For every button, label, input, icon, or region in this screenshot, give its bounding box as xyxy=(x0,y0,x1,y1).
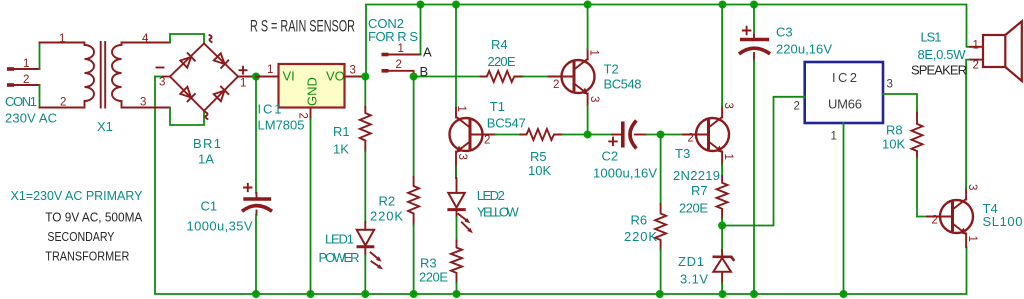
svg-text:3: 3 xyxy=(159,77,165,89)
wire: LED1 to ground rail xyxy=(364,255,366,294)
wire: VO node down to R1 xyxy=(364,77,366,108)
wire: T3 base from node xyxy=(661,134,683,136)
T1 labels xyxy=(487,99,526,131)
svg-text:3: 3 xyxy=(350,65,356,77)
svg-text:LED1: LED1 xyxy=(325,232,354,247)
svg-text:R2: R2 xyxy=(379,194,396,209)
node: junction ground rail at R2 xyxy=(410,290,418,298)
T3 labels xyxy=(673,146,720,183)
wire: node down to ZD1 xyxy=(721,226,723,251)
svg-text:1: 1 xyxy=(267,64,273,76)
node: junction ground rail at R3 xyxy=(453,290,461,298)
svg-text:2N2219: 2N2219 xyxy=(673,168,720,183)
wire: node down to R6 xyxy=(660,135,662,205)
svg-text:T2: T2 xyxy=(604,62,619,77)
wire: R2 to ground rail xyxy=(413,225,415,294)
IC2 pin 2 wire to ZD1 node xyxy=(722,97,805,226)
svg-text:8E,0.5W: 8E,0.5W xyxy=(918,47,967,62)
node: junction ground rail at IC1 GND xyxy=(307,290,315,298)
svg-text:R8: R8 xyxy=(886,123,903,138)
T2 labels xyxy=(604,62,642,92)
wire: CON1 pin2 to transformer primary pin 2 xyxy=(39,85,41,108)
node: junction top rail at T2 collector xyxy=(584,1,592,9)
connector CON1 pin 2 xyxy=(7,74,40,86)
svg-text:4: 4 xyxy=(142,33,149,45)
svg-text:220K: 220K xyxy=(370,209,403,224)
svg-text:1A: 1A xyxy=(198,152,214,167)
wire: T3 collector to top rail xyxy=(721,5,723,107)
wire: C2 to T3 base node xyxy=(646,134,661,136)
transistor T4 SL100 xyxy=(927,184,978,247)
LED1 labels xyxy=(319,232,360,266)
speaker LS1 xyxy=(970,21,1021,81)
bridge AC tilde bottom xyxy=(205,112,207,119)
svg-text:R S = RAIN SENSOR: R S = RAIN SENSOR xyxy=(250,17,355,36)
wire: R6 to ground rail xyxy=(660,250,662,295)
transistor T3 2N2219 xyxy=(683,103,734,166)
node: junction ground rail at LED1 xyxy=(361,290,369,298)
wire: R1 to LED1 xyxy=(364,151,366,222)
svg-text:IC1: IC1 xyxy=(258,102,282,117)
svg-text:2: 2 xyxy=(484,135,490,147)
resistor R4 220E xyxy=(481,37,523,82)
LED2 labels xyxy=(477,188,520,220)
svg-text:BC547: BC547 xyxy=(487,116,526,131)
speaker LS1 labels xyxy=(911,30,967,78)
capacitor C3 (polarized) xyxy=(739,27,770,60)
svg-text:230V AC: 230V AC xyxy=(5,111,57,126)
svg-text:T3: T3 xyxy=(675,146,690,161)
svg-text:2: 2 xyxy=(553,79,559,91)
svg-text:2: 2 xyxy=(932,215,938,227)
svg-text:LM7805: LM7805 xyxy=(258,118,305,133)
wire: T1 emitter green segment xyxy=(455,167,457,178)
svg-text:3: 3 xyxy=(966,184,978,190)
wire: T2 emitter down to C2 row xyxy=(587,106,589,135)
svg-text:C1: C1 xyxy=(201,199,218,214)
wire: B node to R4 xyxy=(414,76,481,78)
wire: C3 down to ground rail xyxy=(753,60,755,294)
capacitor C2 labels xyxy=(593,149,657,181)
LED LED2 yellow xyxy=(447,178,474,235)
svg-text:FOR R S: FOR R S xyxy=(368,29,418,44)
svg-text:1: 1 xyxy=(973,40,979,52)
svg-text:TO 9V AC, 500MA: TO 9V AC, 500MA xyxy=(45,210,142,225)
transistor T2 BC548 xyxy=(549,49,601,106)
wire: node down to R2 xyxy=(413,77,415,178)
node: junction top rail at C3 xyxy=(750,1,758,9)
wire: top rail to C3 xyxy=(753,5,755,35)
svg-text:POWER: POWER xyxy=(319,250,360,265)
svg-text:GND: GND xyxy=(305,77,320,106)
svg-text:3: 3 xyxy=(722,103,734,109)
node: junction ground rail at ZD1 xyxy=(719,290,727,298)
wire: R5 to T2 emitter node xyxy=(562,134,588,136)
capacitor C2 (polarized) xyxy=(609,121,646,149)
wire: IC1 GND to ground rail xyxy=(310,119,312,294)
resistor R7 220E xyxy=(679,176,728,219)
svg-text:220K: 220K xyxy=(624,229,657,244)
svg-text:R6: R6 xyxy=(631,213,648,228)
svg-text:220E: 220E xyxy=(419,270,448,285)
node: junction ground rail at R6 xyxy=(656,290,664,298)
resistor R6 220K xyxy=(624,204,666,250)
svg-text:1: 1 xyxy=(722,154,734,160)
wire: R4 to T2 base xyxy=(523,76,549,78)
svg-text:1: 1 xyxy=(455,106,467,112)
svg-text:220E: 220E xyxy=(488,54,516,69)
node: junction T2 emitter / R5 / C2 xyxy=(584,131,592,139)
svg-text:SECONDARY: SECONDARY xyxy=(47,229,114,244)
resistor R3 220E xyxy=(419,241,462,285)
bridge minus sign xyxy=(157,67,164,69)
svg-text:BC548: BC548 xyxy=(604,77,642,92)
svg-text:CON1: CON1 xyxy=(5,94,37,109)
wire: transformer secondary pin4 to bridge AC top xyxy=(170,34,204,44)
svg-text:X1: X1 xyxy=(97,119,113,134)
svg-text:2: 2 xyxy=(973,60,979,72)
svg-text:220E: 220E xyxy=(679,201,708,216)
wire: LED2 to R3 xyxy=(456,217,458,241)
svg-text:LS1: LS1 xyxy=(921,30,942,45)
node: junction R7 / ZD1 / IC2 pin2 xyxy=(718,222,726,230)
svg-text:3: 3 xyxy=(887,79,893,91)
svg-text:SPEAKER: SPEAKER xyxy=(911,63,967,78)
bridge diode D2 (top to right) xyxy=(214,53,229,68)
node: junction top rail at T3 collector xyxy=(719,1,727,9)
svg-text:TRANSFORMER: TRANSFORMER xyxy=(45,249,129,264)
svg-text:2: 2 xyxy=(60,97,66,109)
connector CON1 pin 1 xyxy=(7,58,40,70)
regulator IC1 LM7805 body xyxy=(279,64,345,108)
wire: R8 down and right to T4 base xyxy=(917,158,927,217)
svg-text:BR1: BR1 xyxy=(193,136,221,151)
wire: C1 to ground rail xyxy=(255,215,257,294)
wire: ZD1 to ground rail xyxy=(721,283,723,294)
svg-text:1: 1 xyxy=(23,58,29,70)
svg-text:R5: R5 xyxy=(530,149,547,164)
T4 labels xyxy=(983,201,1023,229)
node: junction ground rail at IC2 pin1 xyxy=(840,290,848,298)
wire: bridge positive to VI node xyxy=(238,76,256,78)
transformer X1 primary winding xyxy=(40,33,95,109)
svg-text:SL100: SL100 xyxy=(983,214,1023,229)
svg-text:YELLOW: YELLOW xyxy=(477,205,520,220)
transistor T1 BC547 xyxy=(450,106,496,169)
wire: T2 collector to top rail xyxy=(587,5,589,50)
resistor R2 220K xyxy=(370,177,419,225)
svg-text:R4: R4 xyxy=(491,37,508,52)
bridge AC tilde top xyxy=(209,35,211,42)
bridge rectifier BR1 xyxy=(157,35,247,119)
wire: ground bottom rail with left riser to bridge negative xyxy=(155,77,967,295)
transformer X1 core xyxy=(101,42,106,108)
bridge diode D4 (bottom to right) xyxy=(214,87,229,102)
svg-text:1000u,16V: 1000u,16V xyxy=(593,166,657,181)
note: X1 transformer specification xyxy=(11,188,143,264)
svg-text:2: 2 xyxy=(23,74,29,86)
node: junction ground rail at C1 xyxy=(252,290,260,298)
wire: +5V top rail with end drops to VO node and speaker pin 1 xyxy=(366,5,970,77)
wire: T1 base to R5 xyxy=(496,134,521,136)
svg-text:2: 2 xyxy=(396,59,402,71)
svg-text:1: 1 xyxy=(831,131,837,143)
wire: R3 to ground rail xyxy=(456,283,458,294)
connector CON1 label xyxy=(5,94,57,126)
svg-text:R7: R7 xyxy=(691,183,708,198)
ZD1 labels xyxy=(678,254,708,287)
zener diode ZD1 3.1V xyxy=(713,250,735,283)
node: junction ground rail at C3 xyxy=(750,290,758,298)
transformer X1 secondary winding xyxy=(112,33,170,109)
wire: R7 to ZD1 node xyxy=(721,219,723,226)
connector CON2 labels xyxy=(368,16,418,44)
svg-text:VO: VO xyxy=(326,69,345,84)
wire: T4 collector up to speaker pin 2 xyxy=(966,60,970,188)
resistor R8 10K xyxy=(882,113,923,158)
connector CON2 pin 2 xyxy=(382,59,414,77)
svg-text:1000u,35V: 1000u,35V xyxy=(187,219,253,234)
bridge BR1 label xyxy=(193,136,221,167)
svg-text:A: A xyxy=(423,45,432,60)
node: junction top rail at CON2 pin1 (A) xyxy=(417,1,425,9)
wire: top rail to CON2 pin 1 xyxy=(420,5,422,55)
wire: T1 emitter to LED2 xyxy=(455,168,457,178)
LED LED1 power indicator xyxy=(357,222,385,271)
capacitor C1 labels xyxy=(187,199,253,234)
svg-text:LED2: LED2 xyxy=(477,188,505,203)
bridge diode D3 (left to bottom) xyxy=(180,87,195,102)
svg-text:UM66: UM66 xyxy=(828,97,862,112)
IC1 pin 1 (VI) xyxy=(256,64,279,77)
svg-text:1: 1 xyxy=(588,50,600,56)
svg-text:2: 2 xyxy=(794,101,800,113)
wire: top rail down to T1 collector xyxy=(455,5,457,109)
svg-text:VI: VI xyxy=(283,69,295,84)
svg-text:C3: C3 xyxy=(776,25,793,40)
node: junction CON2 pin2 / R2 / R4 row xyxy=(410,73,418,81)
IC1 pin 3 (VO) xyxy=(345,65,366,77)
resistor R1 1K xyxy=(333,107,371,157)
connector CON2 pin 1 xyxy=(382,43,421,55)
svg-text:C2: C2 xyxy=(602,149,619,164)
node: junction VO / top rail / R1 xyxy=(361,73,369,81)
node: junction top rail at T1 collector xyxy=(452,1,460,9)
IC2 pin 1 wire to ground rail xyxy=(831,123,844,294)
wire: CON1 pin1 to transformer primary pin 1 xyxy=(39,43,41,70)
node: junction C2 / R6 / T3 base xyxy=(657,131,665,139)
svg-text:10K: 10K xyxy=(528,163,551,178)
capacitor C1 (polarized) xyxy=(242,184,272,215)
svg-text:T1: T1 xyxy=(490,99,505,114)
svg-text:3: 3 xyxy=(456,154,468,160)
IC2 pin 3 wire to R8 xyxy=(883,79,917,113)
svg-text:ZD1: ZD1 xyxy=(678,254,704,269)
resistor R5 10K xyxy=(521,129,563,178)
IC1 pin 2 (GND) xyxy=(297,108,311,120)
svg-text:R3: R3 xyxy=(420,256,437,271)
IC2 UM66 body xyxy=(805,62,883,123)
svg-text:1K: 1K xyxy=(333,142,349,157)
svg-text:1: 1 xyxy=(966,236,978,242)
node: junction bridge+ / C1 / IC1 VI xyxy=(252,73,260,81)
svg-text:3: 3 xyxy=(588,96,600,102)
IC1 labels xyxy=(258,102,305,133)
svg-text:220u,16V: 220u,16V xyxy=(776,42,832,57)
svg-text:3: 3 xyxy=(140,97,146,109)
wire: transformer secondary pin3 to bridge AC bottom xyxy=(170,108,204,126)
capacitor C3 labels xyxy=(776,25,832,57)
svg-text:X1=230V AC PRIMARY: X1=230V AC PRIMARY xyxy=(11,188,143,203)
svg-text:2: 2 xyxy=(688,133,694,145)
svg-text:10K: 10K xyxy=(882,137,905,152)
svg-text:1: 1 xyxy=(59,33,65,45)
wire: T3 emitter to R7 xyxy=(721,165,723,176)
svg-text:1: 1 xyxy=(398,43,404,55)
wire: node to C2 xyxy=(588,134,612,136)
wire: bridge negative to ground riser xyxy=(155,76,163,78)
svg-text:3.1V: 3.1V xyxy=(680,272,708,287)
wire: node down to capacitor C1 xyxy=(255,77,257,194)
svg-text:R1: R1 xyxy=(333,124,350,139)
bridge diode D1 (left to top) xyxy=(180,53,195,68)
svg-text:1: 1 xyxy=(240,78,246,90)
